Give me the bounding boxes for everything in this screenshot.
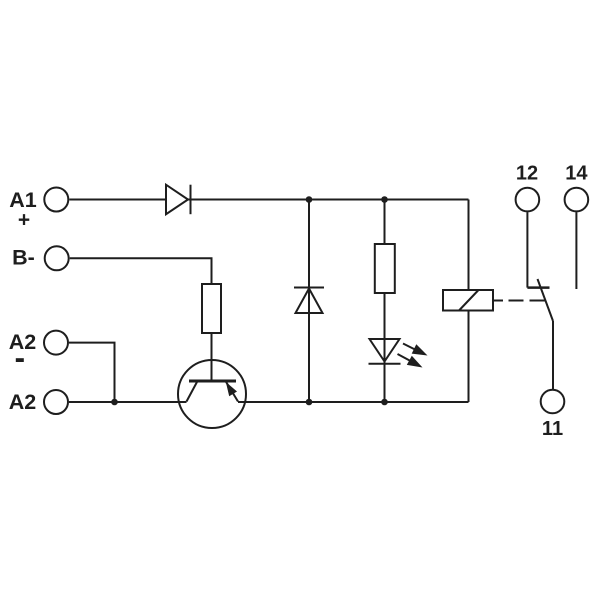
- wire right branch down to relay coil: [468, 200, 470, 291]
- junction bottom rail left: [306, 399, 313, 406]
- junction top rail right: [381, 196, 388, 203]
- terminal 11: [541, 390, 565, 414]
- wire terminal 12 down: [526, 212, 528, 288]
- terminal 12: [516, 188, 540, 212]
- wire blade to terminal 11: [552, 321, 554, 389]
- svg-text:14: 14: [565, 162, 588, 184]
- svg-text:11: 11: [542, 418, 563, 440]
- relay coil K1: [443, 290, 493, 311]
- resistor R1 (base resistor): [202, 284, 221, 333]
- LED D2: [369, 339, 401, 364]
- transistor Q1: [178, 360, 246, 428]
- svg-text:12: 12: [516, 162, 538, 184]
- junction bottom rail right: [381, 399, 388, 406]
- wire terminal 14 down: [575, 212, 577, 289]
- wire resistor to transistor base: [211, 333, 213, 381]
- diode D1: [166, 185, 188, 215]
- terminal B-: [45, 246, 69, 270]
- svg-text:+: +: [18, 209, 30, 232]
- LED arrow 1: [403, 344, 428, 356]
- bottom rail wire: [238, 401, 469, 403]
- wire A1 to diode: [69, 199, 166, 201]
- wire diode to right corner (top rail): [188, 199, 469, 201]
- wire A2 lower to transistor: [69, 401, 187, 403]
- switch blade: [538, 279, 554, 321]
- terminal A2 upper: [44, 331, 68, 355]
- terminal A1: [44, 188, 68, 212]
- junction A2: [111, 399, 118, 406]
- LED branch wire top: [384, 200, 386, 245]
- svg-text:B-: B-: [12, 245, 35, 269]
- wire relay coil bottom: [468, 311, 470, 403]
- mechanical link (dashed): [494, 300, 546, 302]
- wire B- horizontal: [70, 258, 212, 284]
- svg-text:A2: A2: [9, 390, 37, 414]
- resistor R2 (LED resistor): [375, 244, 395, 293]
- svg-text:A2: A2: [9, 330, 37, 354]
- terminal 14: [565, 188, 589, 212]
- label -: [16, 358, 24, 362]
- wire A2 upper to junction: [69, 343, 115, 402]
- diode V1 (suppressor): [294, 288, 324, 314]
- LED branch wire bottom: [384, 293, 386, 402]
- LED arrow 2: [398, 354, 423, 368]
- junction top rail left: [306, 196, 313, 203]
- contact 12 tick: [527, 286, 549, 289]
- terminal A2 lower: [44, 390, 68, 414]
- diode V1 branch wire: [308, 200, 310, 403]
